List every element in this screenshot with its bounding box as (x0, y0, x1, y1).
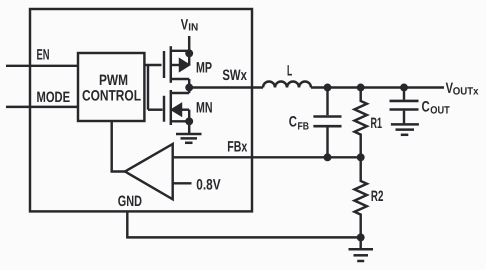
node FB junction dot (324, 153, 332, 161)
node CFB top dot (324, 84, 332, 92)
svg-text:MP: MP (196, 60, 212, 77)
capacitor CFB (313, 88, 341, 158)
node R1 bottom dot (357, 153, 365, 161)
node COUT top dot (400, 84, 408, 92)
svg-text:GND: GND (118, 193, 142, 210)
svg-text:OUTx: OUTx (453, 85, 479, 97)
wire FBx (173, 156, 361, 158)
transistor MN (164, 88, 189, 126)
svg-text:MN: MN (196, 99, 213, 116)
svg-text:CONTROL: CONTROL (82, 87, 141, 104)
svg-text:C: C (422, 99, 430, 116)
svg-text:R1: R1 (371, 115, 383, 132)
wire amp output to PWM (112, 121, 125, 172)
wire SWx to inductor (189, 86, 263, 88)
node R2 ground dot (357, 233, 365, 241)
svg-text:FB: FB (298, 120, 310, 132)
svg-text:0.8V: 0.8V (196, 177, 220, 194)
IC outline (30, 9, 252, 211)
ground under MN (176, 121, 202, 143)
capacitor COUT (390, 88, 419, 124)
node R1 top dot (357, 84, 365, 92)
svg-text:IN: IN (188, 21, 198, 33)
svg-text:MODE: MODE (37, 89, 71, 106)
resistor R2 (355, 157, 367, 237)
svg-text:FBx: FBx (227, 138, 247, 155)
PWM control block (78, 53, 144, 121)
svg-text:L: L (287, 63, 292, 80)
svg-text:V: V (181, 17, 188, 34)
ground at R2 (349, 237, 374, 261)
wire 0.8V reference stub (173, 182, 192, 184)
node SWx dot (185, 84, 193, 92)
transistor MP (164, 46, 189, 87)
wire VIN lead (188, 36, 190, 53)
resistor R1 (355, 88, 367, 158)
wire output (311, 86, 444, 88)
svg-text:R2: R2 (371, 188, 384, 205)
wire EN (6, 65, 78, 67)
wire MODE (6, 106, 78, 108)
wire gate tie vertical (147, 65, 149, 110)
wire ground rail (127, 211, 360, 237)
svg-text:C: C (289, 114, 297, 131)
node VIN junction dot (185, 49, 193, 57)
ground at COUT (391, 124, 419, 134)
node MN source dot (185, 117, 193, 125)
svg-text:EN: EN (37, 46, 50, 63)
wire gate drive MN (148, 108, 163, 110)
svg-text:OUT: OUT (430, 105, 450, 117)
svg-text:SWx: SWx (222, 67, 247, 84)
inductor L (263, 82, 311, 88)
wire gate drive MP (144, 64, 161, 66)
op-amp error amplifier (125, 144, 173, 199)
